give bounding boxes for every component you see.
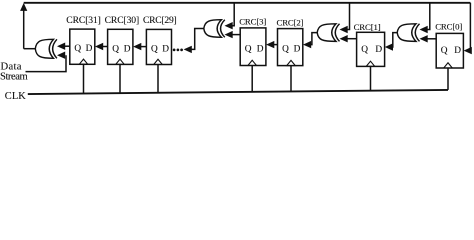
wire: XOR G2 output to CRC[2] D	[311, 33, 318, 45]
flip-flop CRC[29]: pin labels Q D	[151, 44, 169, 54]
arrowhead: CRC[3] Q into XOR G3 lower input	[225, 31, 233, 38]
flip-flop CRC[3]: pin labels Q D	[245, 45, 264, 55]
wire: feedback bus tap down to XOR G2 upper input	[346, 3, 349, 30]
flip-flop CRC[29]: clock input triangle	[154, 59, 163, 64]
svg-text:Q: Q	[361, 45, 368, 55]
svg-text:D: D	[454, 46, 461, 56]
arrowhead: into CRC[31] D	[95, 43, 103, 50]
flip-flop CRC[30]: pin labels Q D	[112, 44, 131, 54]
flip-flop CRC[2]: clock input triangle	[287, 60, 296, 65]
svg-text:D: D	[86, 44, 93, 54]
arrowhead: into CRC[3] D	[266, 41, 274, 48]
arrowhead: XOR G2 output into CRC[2] D	[303, 41, 311, 48]
label CRC[29]	[143, 15, 176, 26]
svg-text:CRC[30]: CRC[30]	[105, 15, 139, 26]
wire: CRC[31] Q to XOR G0 upper input	[65, 45, 70, 47]
wire: XOR G3 output down to omitted stages	[191, 29, 204, 50]
svg-text:D: D	[257, 45, 264, 55]
wire: XOR G0 output to left riser	[24, 48, 36, 50]
label: CLK (clock input)	[5, 91, 26, 102]
label CRC[0]	[435, 21, 462, 31]
xor gate G3 (feedback XOR CRC[3])	[204, 20, 225, 38]
svg-text:Q: Q	[112, 44, 119, 54]
flip-flop CRC[0]: pin labels Q D	[441, 46, 461, 56]
arrowhead: Data Stream into XOR G0	[57, 52, 65, 59]
wire: CLK to CRC[0] clock input	[447, 68, 449, 90]
wire: CLK to CRC[30] clock input	[119, 64, 121, 93]
xor gate G1 (feedback XOR CRC[0])	[397, 24, 419, 42]
label CRC[1]	[354, 22, 381, 32]
label: Data (input data stream, line 1)	[1, 62, 22, 73]
svg-text:D: D	[162, 44, 169, 54]
node: ellipsis (omitted stages CRC[28..4])	[173, 49, 183, 52]
arrowhead: XOR G1 output into CRC[1] D	[385, 43, 393, 50]
label CRC[30]	[105, 15, 139, 26]
svg-text:CRC[0]: CRC[0]	[435, 21, 462, 31]
wire: CLK to CRC[2] clock input	[290, 66, 292, 92]
svg-text:D: D	[294, 45, 301, 55]
wire: feedback bus down right side to CRC[0] D	[470, 3, 471, 51]
flip-flop CRC[31]: box	[70, 29, 95, 64]
wire: CLK to CRC[31] clock input	[83, 64, 85, 93]
svg-text:Q: Q	[74, 44, 81, 54]
arrowhead: feedback into XOR G3 upper input	[225, 22, 233, 29]
wire: CLK to CRC[29] clock input	[157, 65, 159, 93]
wire: CRC[2] Q to CRC[3] D	[274, 44, 278, 46]
svg-text:D: D	[124, 44, 131, 54]
xor gate G0 (Data XOR CRC[31])	[35, 39, 57, 58]
wire: feedback bus along top	[24, 2, 471, 4]
flip-flop CRC[0]: box	[436, 33, 463, 68]
label CRC[2]	[277, 17, 304, 27]
wire: feedback bus tap down to XOR G1 upper input	[426, 3, 429, 30]
svg-text:D: D	[375, 45, 382, 55]
wire: XOR G1 output to CRC[1] D	[392, 33, 397, 47]
wire: CRC[30] Q to CRC[31] D	[103, 46, 108, 48]
arrowhead: CRC[0] Q into XOR G1 lower input	[420, 35, 428, 42]
wire: Data Stream into XOR G0 lower input	[26, 55, 67, 71]
arrowhead: CRC[1] Q into XOR G2 lower input	[340, 35, 348, 42]
svg-text:CRC[1]: CRC[1]	[354, 22, 381, 32]
flip-flop CRC[29]: box	[146, 29, 171, 64]
arrowhead: feedback into top bus (pointing up)	[20, 3, 27, 11]
wire: CRC[3] Q to XOR G3 lower input	[232, 34, 240, 36]
svg-text:CRC[2]: CRC[2]	[277, 17, 304, 27]
flip-flop CRC[1]: pin labels Q D	[361, 45, 382, 55]
flip-flop CRC[0]: clock input triangle	[444, 63, 453, 68]
flip-flop CRC[2]: box	[278, 29, 303, 66]
flip-flop CRC[3]: clock input triangle	[248, 60, 257, 65]
svg-text:Q: Q	[441, 46, 448, 56]
arrowhead: feedback into CRC[0] D	[464, 47, 472, 54]
flip-flop CRC[1]: clock input triangle	[366, 61, 375, 66]
wire: XOR G0 output up to feedback bus (left riser)	[23, 11, 25, 49]
svg-text:CRC[3]: CRC[3]	[239, 17, 266, 27]
label CRC[3]	[239, 17, 266, 27]
svg-text:Stream: Stream	[0, 72, 29, 83]
arrowhead: into CRC[30] D	[133, 43, 141, 50]
flip-flop CRC[2]: pin labels Q D	[282, 45, 301, 55]
flip-flop CRC[30]: clock input triangle	[116, 59, 125, 64]
wire: CRC[29] Q to CRC[30] D	[141, 46, 146, 48]
svg-text:Q: Q	[245, 45, 252, 55]
svg-text:Q: Q	[151, 44, 158, 54]
arrowhead: XOR G3 output into omitted stages	[184, 46, 192, 53]
wire: CLK to CRC[3] clock input	[251, 66, 253, 92]
wire: CRC[0] Q to XOR G1 lower input	[426, 38, 436, 40]
arrowhead: feedback into XOR G2 upper input	[340, 26, 348, 33]
xor gate G2 (feedback XOR CRC[1])	[317, 24, 339, 42]
flip-flop CRC[30]: box	[108, 29, 133, 64]
flip-flop CRC[31]: clock input triangle	[79, 59, 88, 64]
flip-flop CRC[3]: box	[240, 28, 266, 66]
wire: CLK to CRC[1] clock input	[370, 66, 372, 90]
arrowhead: feedback into XOR G1 upper input	[420, 26, 428, 33]
wire: CLK bus along bottom	[28, 90, 448, 94]
label: Stream (input data stream, line 2)	[0, 72, 29, 83]
flip-flop CRC[1]: box	[357, 32, 385, 66]
flip-flop CRC[31]: pin labels Q D	[74, 44, 92, 54]
svg-text:CRC[31]: CRC[31]	[66, 15, 100, 26]
svg-text:CRC[29]: CRC[29]	[143, 15, 176, 26]
wire: feedback bus tap down to XOR G3 upper input	[232, 3, 234, 26]
svg-text:Q: Q	[282, 45, 289, 55]
label CRC[31]	[66, 15, 100, 26]
svg-text:CLK: CLK	[5, 91, 26, 100]
wire: CRC[1] Q to XOR G2 lower input	[346, 38, 356, 40]
arrowhead: CRC[31] Q into XOR G0	[57, 43, 65, 50]
